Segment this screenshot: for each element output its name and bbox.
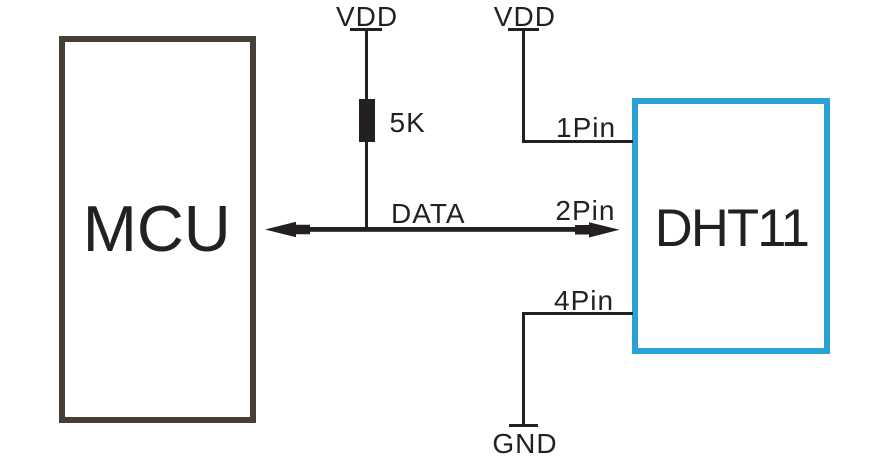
wire DATA shaft [298,227,590,232]
ground bar [509,424,538,427]
MCU box U1 [59,36,256,423]
VDD label (right rail) [494,3,556,31]
wire VDD rail down to 1Pin [522,30,525,141]
VDD power bar (left rail) [350,28,382,31]
arrowhead into DHT11 (right) [575,222,620,237]
wire VDD rail to resistor R1 [365,30,368,101]
MCU label [83,196,231,261]
DHT11 box U2 [632,98,830,354]
pin label 2Pin [555,197,615,225]
wire 4Pin horizontal from DHT11 pin 4 [522,312,633,315]
wire resistor R1 to DATA node [365,141,368,230]
VDD power bar (right rail) [508,28,539,31]
GND label [492,430,557,458]
DHT11 label [655,203,808,256]
wire 4Pin down to ground [522,312,525,425]
VDD label (left rail) [336,3,398,31]
resistor R1 body [359,99,375,142]
wire 1Pin horizontal into DHT11 pin 1 [522,140,633,143]
pin label 1Pin [556,114,616,142]
DATA label [391,200,466,228]
resistor value 5K [390,109,426,137]
pin label 4Pin [554,287,614,315]
arrowhead into MCU (left) [265,222,310,238]
